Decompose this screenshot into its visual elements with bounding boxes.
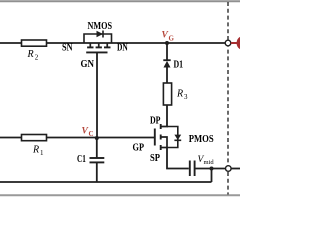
node VG (165, 41, 169, 45)
wire D1 to R3 (166, 67, 168, 83)
transistor PMOS (155, 124, 214, 150)
svg-text:GP: GP (133, 143, 145, 154)
body-diode loop (84, 34, 112, 43)
wire NMOS gate to VC node (96, 52, 98, 138)
wire top rail (0, 42, 226, 44)
wire output stub (231, 168, 240, 170)
terminal node bottom (open circle) (226, 166, 232, 172)
gate line (86, 51, 107, 53)
transistor NMOS (84, 21, 112, 52)
resistor R2 (22, 40, 47, 62)
svg-text:R: R (27, 49, 34, 60)
svg-text:DP: DP (150, 116, 161, 127)
svg-text:C1: C1 (77, 154, 86, 165)
svg-text:mid: mid (204, 159, 215, 166)
resistor R1 (22, 135, 47, 158)
wire PMOS source to Vmid cap (167, 148, 189, 169)
body-diode loop (167, 127, 178, 148)
wire Vmid cap to output node (195, 168, 226, 170)
svg-text:V: V (82, 127, 89, 137)
source stub (161, 147, 167, 149)
gate bar (154, 129, 156, 146)
svg-text:1: 1 (40, 149, 44, 157)
wire C1 top lead (96, 138, 98, 158)
gray figure border top (0, 0, 240, 2)
wire red lead to callout (231, 42, 238, 44)
svg-text:R: R (32, 145, 39, 156)
svg-text:C: C (89, 130, 94, 138)
svg-text:SN: SN (62, 43, 73, 54)
callout red circle (cut off) (237, 36, 248, 49)
body stub (161, 137, 167, 148)
wire bottom rail (0, 181, 212, 183)
diode D1 (163, 60, 183, 71)
svg-text:SP: SP (150, 153, 160, 164)
wire riser (211, 169, 213, 183)
svg-text:PMOS: PMOS (189, 134, 214, 145)
capacitor C1 (77, 154, 104, 165)
junction Vmid/bottom rail riser (210, 167, 214, 171)
svg-text:V: V (162, 31, 169, 41)
gray figure border bottom (0, 194, 240, 196)
wire C1 bottom lead (96, 162, 98, 182)
dashed boundary line (227, 2, 229, 195)
svg-text:R: R (176, 89, 183, 100)
resistor R3 (163, 83, 188, 105)
svg-text:NMOS: NMOS (88, 21, 113, 32)
svg-text:3: 3 (184, 93, 188, 101)
wire VC/gate rail (R1 to PMOS gate) (0, 137, 155, 139)
wire VG to D1 (166, 43, 168, 60)
wire R3 to PMOS drain (161, 105, 167, 127)
svg-text:GN: GN (81, 59, 95, 70)
capacitor Vmid (190, 155, 215, 176)
svg-text:G: G (169, 35, 175, 43)
channel contacts (89, 43, 91, 47)
channel contact bars (160, 124, 162, 129)
terminal node top (open circle) (225, 40, 231, 46)
svg-text:DN: DN (117, 43, 128, 54)
node VC (95, 136, 99, 140)
svg-text:2: 2 (35, 54, 39, 62)
svg-text:D1: D1 (174, 60, 184, 71)
